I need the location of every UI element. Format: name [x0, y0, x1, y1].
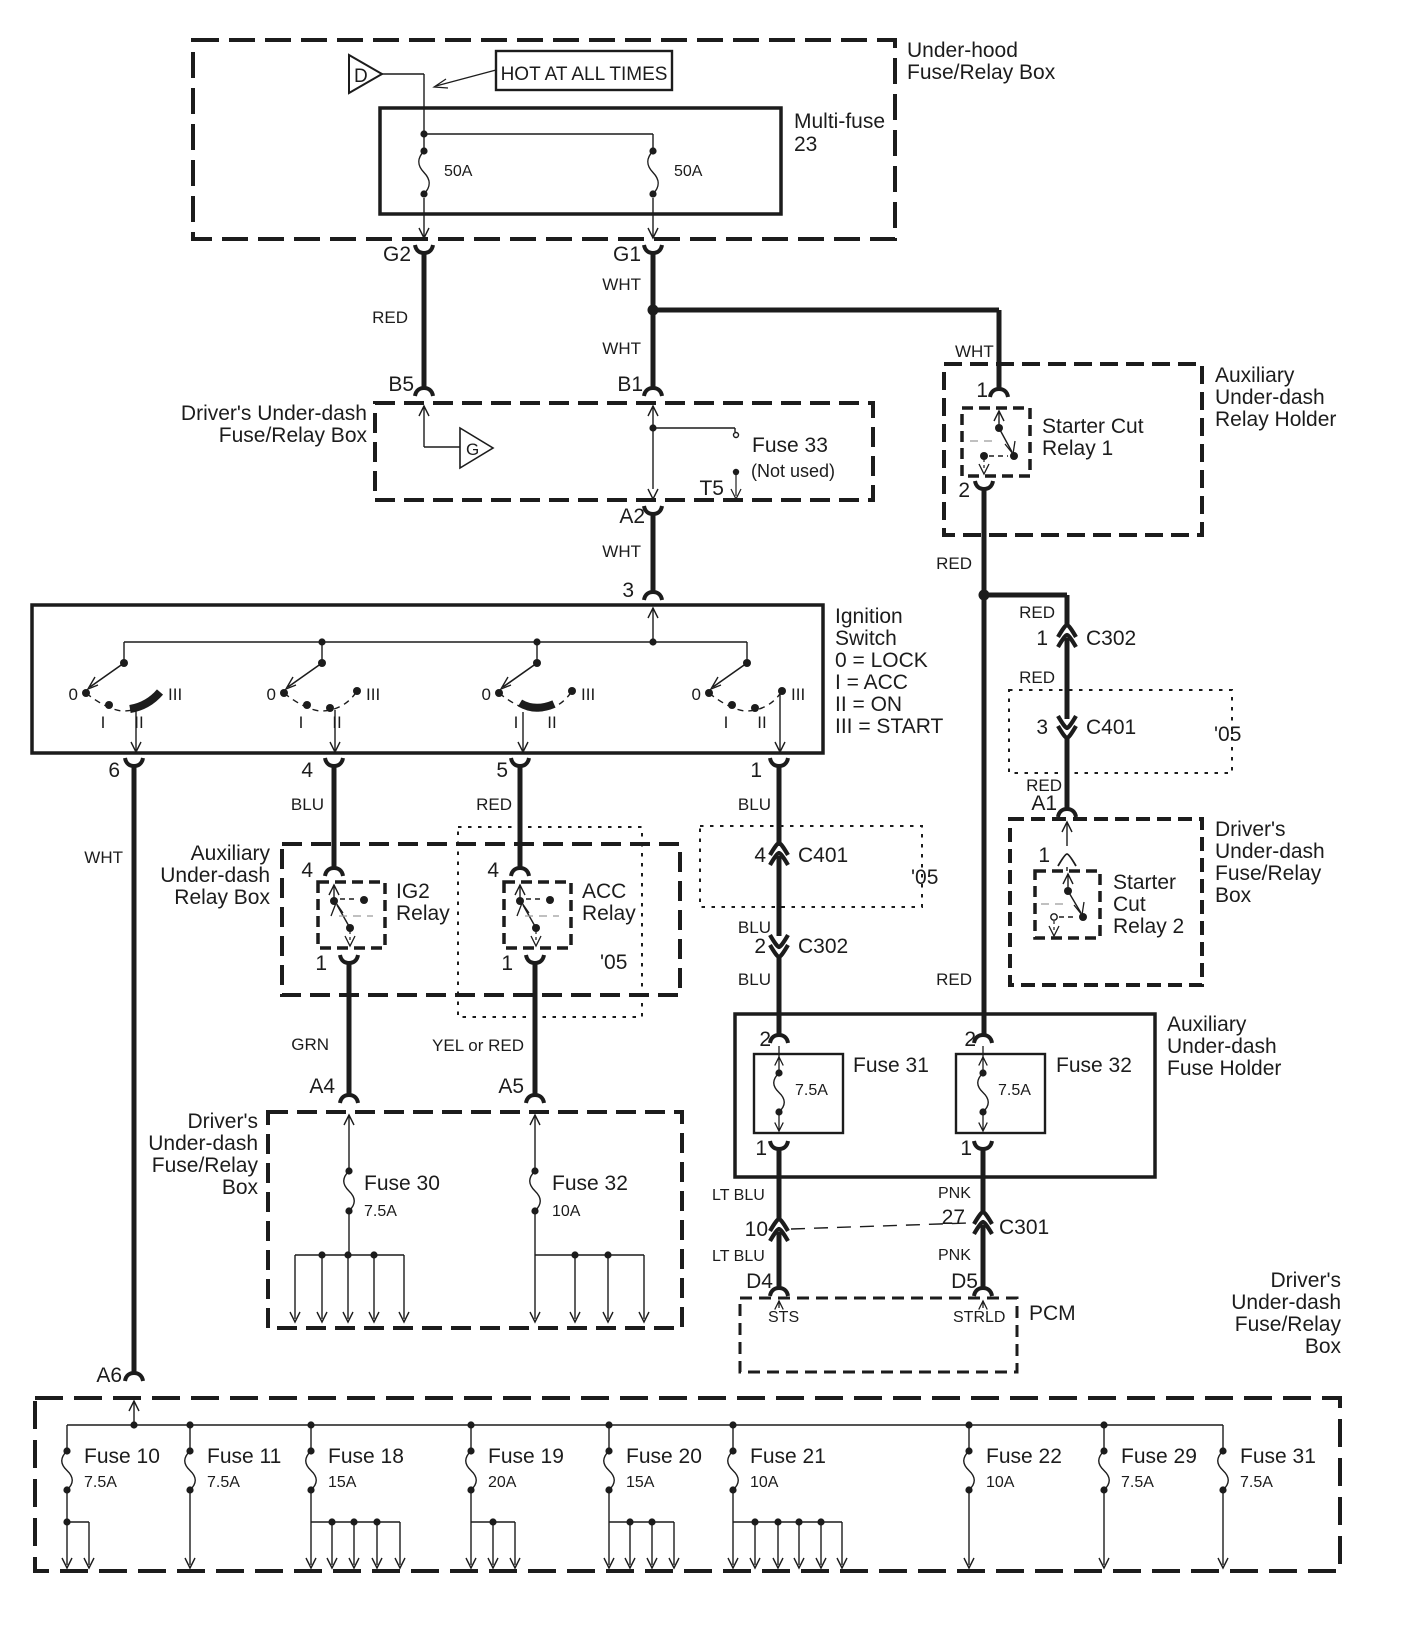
connector C401 pin 4 — [754, 843, 848, 867]
svg-text:1: 1 — [501, 952, 513, 975]
ground fan of Fuse 20 — [604, 1493, 679, 1568]
svg-text:7.5A: 7.5A — [1121, 1474, 1154, 1491]
svg-text:II: II — [547, 713, 556, 732]
box Auxiliary Under-dash Relay Box — [282, 844, 680, 995]
svg-text:Relay Box: Relay Box — [174, 886, 270, 909]
box Ignition Switch — [32, 605, 823, 753]
wire RED G2 to B5 — [372, 252, 424, 388]
wire LT BLU C301 to D4 — [712, 1232, 779, 1290]
svg-text:1: 1 — [750, 759, 762, 782]
ground fan of Fuse 31 — [1218, 1493, 1228, 1568]
svg-text:Fuse 30: Fuse 30 — [364, 1172, 440, 1195]
wire PNK fuse32 to C301 — [938, 1148, 983, 1214]
ground fan of Fuse 29 — [1099, 1493, 1109, 1568]
connector pin 5 — [496, 758, 529, 782]
wire RED C302 to C401 — [1019, 638, 1067, 719]
svg-text:Fuse 32: Fuse 32 — [552, 1172, 628, 1195]
svg-text:Relay 1: Relay 1 — [1042, 437, 1113, 460]
svg-text:1: 1 — [960, 1137, 972, 1160]
relay Starter Cut Relay 1 — [962, 408, 1030, 476]
svg-text:1: 1 — [1036, 627, 1048, 650]
svg-text:7.5A: 7.5A — [795, 1082, 828, 1099]
label Starter Cut Relay 1 — [1042, 415, 1144, 460]
wire BLU C401 to C302 — [738, 856, 779, 937]
svg-text:7.5A: 7.5A — [207, 1474, 240, 1491]
label Auxiliary Under-dash Relay Box — [160, 842, 270, 909]
fuse Fuse 19 20A — [466, 1421, 564, 1493]
connector D4 — [746, 1270, 788, 1296]
svg-text:Fuse 11: Fuse 11 — [207, 1445, 281, 1468]
svg-text:2: 2 — [754, 935, 766, 958]
wire A1 entry to relay 2 — [1038, 822, 1076, 871]
svg-text:C302: C302 — [1086, 627, 1136, 650]
svg-text:27: 27 — [942, 1206, 965, 1229]
label Auxiliary Under-dash Relay Holder — [1215, 364, 1336, 431]
label IG2 Relay — [396, 880, 450, 925]
wire BLU C302 to fuse holder — [738, 955, 779, 1037]
junction node on RED wire — [979, 590, 990, 601]
svg-text:Relay: Relay — [396, 902, 450, 925]
label PCM — [1029, 1302, 1076, 1325]
svg-text:II: II — [332, 713, 341, 732]
connector pin 1 — [750, 758, 788, 782]
svg-text:LT BLU: LT BLU — [712, 1187, 765, 1204]
svg-text:LT BLU: LT BLU — [712, 1248, 765, 1265]
wire WHT G1 to B1 — [602, 252, 653, 388]
svg-text:A1: A1 — [1031, 792, 1057, 815]
svg-text:Fuse 21: Fuse 21 — [750, 1445, 826, 1468]
svg-text:B1: B1 — [617, 373, 643, 396]
svg-text:15A: 15A — [328, 1474, 357, 1491]
svg-text:Box: Box — [1305, 1335, 1342, 1358]
svg-text:WHT: WHT — [955, 342, 994, 361]
svg-text:6: 6 — [108, 759, 120, 782]
connector pin 6 — [108, 758, 143, 782]
svg-text:2: 2 — [958, 479, 970, 502]
svg-text:RED: RED — [936, 970, 972, 989]
connector A2 — [619, 505, 662, 528]
svg-text:PCM: PCM — [1029, 1302, 1076, 1325]
label ACC Relay — [582, 880, 636, 925]
box '05 dotted region ACC relay — [458, 827, 642, 1017]
svg-text:7.5A: 7.5A — [364, 1203, 397, 1220]
ground fan of Fuse 19 — [466, 1493, 520, 1568]
label Auxiliary Under-dash Fuse Holder — [1167, 1013, 1281, 1080]
svg-text:Under-dash: Under-dash — [1215, 386, 1325, 409]
svg-text:A5: A5 — [498, 1075, 524, 1098]
connector pin 1 of ACC Relay — [501, 952, 544, 975]
connector pin 4 of ACC Relay — [487, 859, 529, 882]
svg-text:'05: '05 — [1214, 723, 1241, 746]
connector G1 — [613, 243, 662, 266]
svg-text:5: 5 — [496, 759, 508, 782]
connector pin 1 of IG2 Relay — [315, 952, 358, 975]
connector A5 — [498, 1075, 544, 1103]
svg-text:STS: STS — [768, 1309, 799, 1326]
connector C302 pin 1 — [1036, 625, 1136, 650]
connector C301 pin 10 — [745, 1218, 788, 1241]
connector pin 3 ignition switch — [622, 579, 662, 602]
svg-text:50A: 50A — [444, 163, 473, 180]
fuse Fuse 32 7.5A — [956, 1046, 1045, 1133]
label Fuse 32 — [1056, 1054, 1132, 1077]
svg-text:C302: C302 — [798, 935, 848, 958]
svg-text:Fuse/Relay Box: Fuse/Relay Box — [907, 61, 1056, 84]
svg-text:RED: RED — [936, 554, 972, 573]
box Driver's Under-dash Fuse/Relay Box bottom — [35, 1398, 1340, 1571]
fuse Fuse 10 7.5A — [62, 1425, 160, 1494]
svg-text:III: III — [581, 685, 595, 704]
svg-text:0: 0 — [267, 685, 276, 704]
label Multi-fuse 23 — [794, 110, 885, 156]
svg-text:D5: D5 — [951, 1270, 978, 1293]
box '05 dotted region C401 right — [1009, 690, 1241, 773]
svg-text:II = ON: II = ON — [835, 693, 902, 716]
wire RED pin5 to ACC relay — [476, 765, 520, 869]
svg-text:WHT: WHT — [84, 848, 123, 867]
svg-text:T5: T5 — [699, 477, 724, 500]
svg-text:'05: '05 — [600, 951, 627, 974]
connector D (power feed triangle) — [349, 55, 382, 93]
svg-text:Under-dash: Under-dash — [1215, 840, 1325, 863]
svg-text:HOT AT ALL TIMES: HOT AT ALL TIMES — [501, 64, 668, 85]
svg-text:Starter: Starter — [1113, 871, 1176, 894]
svg-text:RED: RED — [1019, 668, 1055, 687]
fuse Fuse 31 7.5A — [1218, 1425, 1316, 1494]
svg-text:Auxiliary: Auxiliary — [1215, 364, 1295, 387]
box '05 dotted region C401 mid — [700, 826, 938, 907]
wire B1 entry through box to A2 — [648, 406, 658, 499]
svg-text:Switch: Switch — [835, 627, 897, 650]
svg-text:4: 4 — [754, 844, 766, 867]
svg-text:Fuse/Relay Box: Fuse/Relay Box — [219, 424, 368, 447]
svg-text:Driver's Under-dash: Driver's Under-dash — [181, 402, 367, 425]
fuse Fuse 21 10A — [728, 1421, 826, 1493]
svg-text:Relay Holder: Relay Holder — [1215, 408, 1336, 431]
svg-text:ACC: ACC — [582, 880, 626, 903]
svg-text:10A: 10A — [986, 1474, 1015, 1491]
svg-text:A6: A6 — [96, 1364, 122, 1387]
wire WHT pin6 to A6 — [84, 765, 134, 1374]
svg-text:Fuse 19: Fuse 19 — [488, 1445, 564, 1468]
wire RED C401 to A1 — [1026, 736, 1067, 811]
svg-text:Fuse Holder: Fuse Holder — [1167, 1057, 1281, 1080]
wire 50A right to G1 — [648, 198, 658, 238]
fuse Fuse 31 7.5A — [754, 1046, 843, 1133]
connector pin 1 of Starter Cut Relay 1 — [976, 379, 1008, 402]
svg-text:7.5A: 7.5A — [84, 1474, 117, 1491]
svg-text:III = START: III = START — [835, 715, 944, 738]
svg-text:Fuse 29: Fuse 29 — [1121, 1445, 1197, 1468]
connector pin 1 of Fuse 31 — [755, 1137, 788, 1160]
node branch to Fuse 33 — [649, 424, 738, 437]
svg-text:10A: 10A — [750, 1474, 779, 1491]
relay IG2 Relay — [318, 882, 385, 948]
svg-text:WHT: WHT — [602, 542, 641, 561]
svg-text:20A: 20A — [488, 1474, 517, 1491]
ground fan of Fuse 21 — [728, 1493, 847, 1568]
svg-text:Under-hood: Under-hood — [907, 39, 1018, 62]
svg-text:G2: G2 — [383, 243, 411, 266]
connector A1 — [1031, 792, 1076, 817]
ground fan of Fuse 11 — [185, 1493, 195, 1568]
connector C302 pin 2 — [754, 935, 848, 958]
svg-text:4: 4 — [301, 859, 313, 882]
svg-text:PNK: PNK — [938, 1247, 971, 1264]
svg-text:Under-dash: Under-dash — [148, 1132, 258, 1155]
svg-text:IG2: IG2 — [396, 880, 430, 903]
svg-text:C401: C401 — [798, 844, 848, 867]
svg-text:Under-dash: Under-dash — [1231, 1291, 1341, 1314]
box Multi-fuse 23 — [380, 108, 781, 214]
svg-text:23: 23 — [794, 133, 817, 156]
svg-text:RED: RED — [476, 795, 512, 814]
svg-text:BLU: BLU — [738, 795, 771, 814]
label Driver's Under-dash Fuse/Relay Box — [181, 402, 368, 447]
svg-text:Box: Box — [1215, 884, 1252, 907]
svg-text:Fuse/Relay: Fuse/Relay — [152, 1154, 259, 1177]
svg-text:I: I — [299, 713, 304, 732]
svg-text:10: 10 — [745, 1218, 768, 1241]
wire Fuse 32 to ground fan — [534, 1214, 536, 1255]
svg-text:Under-dash: Under-dash — [160, 864, 270, 887]
label Driver's Under-dash Fuse/Relay Box lower — [148, 1110, 258, 1199]
wire WHT A2 to ignition switch pin 3 — [602, 514, 653, 592]
arrow from HOT tag to wire — [434, 70, 496, 88]
svg-text:BLU: BLU — [738, 970, 771, 989]
svg-text:0: 0 — [692, 685, 701, 704]
box PCM — [740, 1298, 1017, 1372]
svg-text:GRN: GRN — [291, 1035, 329, 1054]
connector B5 — [388, 373, 433, 396]
svg-text:1: 1 — [1038, 844, 1050, 867]
box Driver's Under-dash Fuse/Relay Box lower — [268, 1112, 682, 1328]
wire BLU pin1 to C401 — [738, 765, 779, 846]
connector pin 4 of IG2 Relay — [301, 859, 343, 882]
svg-text:RED: RED — [1019, 603, 1055, 622]
svg-text:1: 1 — [755, 1137, 767, 1160]
connector A6 — [96, 1364, 143, 1387]
svg-text:C301: C301 — [999, 1216, 1049, 1239]
svg-text:III: III — [791, 685, 805, 704]
svg-text:WHT: WHT — [602, 339, 641, 358]
wire A5 entry to Fuse 32 — [530, 1115, 540, 1168]
terminal T5 — [699, 469, 741, 500]
box Driver's Under-dash Fuse/Relay Box — [375, 403, 873, 500]
ground fan of Fuse 32 — [530, 1251, 649, 1322]
fuse Fuse 30 7.5A — [344, 1167, 440, 1220]
fuse Fuse 33 (not used) — [751, 434, 835, 481]
connector pin 2 of Starter Cut Relay 1 — [958, 479, 993, 502]
switch wafer 2 (pin 4) of ignition switch — [267, 642, 381, 752]
switch wafer 1 (pin 6) of ignition switch — [69, 642, 183, 752]
svg-text:Fuse/Relay: Fuse/Relay — [1215, 862, 1322, 885]
wire internal bus of ignition switch — [124, 638, 747, 645]
svg-text:1: 1 — [976, 379, 988, 402]
connector G2 — [383, 243, 433, 266]
svg-text:Relay 2: Relay 2 — [1113, 915, 1184, 938]
svg-text:15A: 15A — [626, 1474, 655, 1491]
svg-text:Fuse/Relay: Fuse/Relay — [1235, 1313, 1342, 1336]
connector G (ground triangle) — [460, 428, 493, 468]
svg-text:III: III — [366, 685, 380, 704]
svg-text:Driver's: Driver's — [187, 1110, 258, 1133]
svg-text:Under-dash: Under-dash — [1167, 1035, 1277, 1058]
svg-text:C401: C401 — [1086, 716, 1136, 739]
connector pin 1 of Fuse 32 — [960, 1137, 992, 1160]
wire WHT branch to Starter Cut Relay 1 — [653, 310, 999, 391]
svg-text:I = ACC: I = ACC — [835, 671, 908, 694]
svg-text:Fuse 32: Fuse 32 — [1056, 1054, 1132, 1077]
svg-text:Auxiliary: Auxiliary — [191, 842, 271, 865]
svg-text:WHT: WHT — [602, 275, 641, 294]
wire GRN IG2 pin1 to A4 — [291, 963, 349, 1097]
svg-text:0 = LOCK: 0 = LOCK — [835, 649, 928, 672]
svg-text:PNK: PNK — [938, 1185, 971, 1202]
svg-text:7.5A: 7.5A — [1240, 1474, 1273, 1491]
svg-text:Driver's: Driver's — [1270, 1269, 1341, 1292]
wire bus of bottom fuse box — [67, 1424, 1223, 1426]
wire RED relay1 pin2 down to fuse holder — [936, 488, 984, 1037]
svg-text:50A: 50A — [674, 163, 703, 180]
wire A6 entry to bus — [129, 1401, 139, 1429]
wire LT BLU fuse31 to C301 — [712, 1148, 779, 1221]
svg-text:1: 1 — [315, 952, 327, 975]
svg-text:Box: Box — [222, 1176, 259, 1199]
svg-text:Cut: Cut — [1113, 893, 1146, 916]
terminal STRLD — [953, 1301, 1005, 1326]
wire internal feed bus of multi-fuse — [420, 130, 653, 148]
box Auxiliary Under-dash Fuse Holder — [735, 1014, 1155, 1177]
relay Starter Cut Relay 2 — [1035, 871, 1100, 938]
svg-text:III: III — [168, 685, 182, 704]
connector C301 pin 27 — [942, 1206, 1050, 1239]
connector C401 pin 3 — [1036, 716, 1136, 739]
svg-text:Fuse 22: Fuse 22 — [986, 1445, 1062, 1468]
fuse Fuse 18 15A — [306, 1421, 404, 1493]
fuse Fuse 20 15A — [604, 1421, 702, 1493]
svg-text:I: I — [724, 713, 729, 732]
svg-text:4: 4 — [301, 759, 313, 782]
connector pin 4 — [301, 758, 343, 782]
fuse 50A right — [648, 147, 703, 197]
svg-text:7.5A: 7.5A — [998, 1082, 1031, 1099]
ground fan of Fuse 18 — [306, 1493, 405, 1568]
connector D5 — [951, 1270, 992, 1296]
wire B5 entry to ground triangle G — [419, 406, 460, 447]
svg-text:A4: A4 — [309, 1075, 335, 1098]
fuse Fuse 32 10A — [530, 1167, 628, 1220]
wire PNK C301 to D5 — [938, 1225, 983, 1290]
wire 50A left to G2 — [419, 198, 429, 238]
svg-text:Driver's: Driver's — [1215, 818, 1286, 841]
svg-text:Fuse 33: Fuse 33 — [752, 434, 828, 457]
label Driver's Under-dash Fuse/Relay Box bottom right — [1231, 1269, 1341, 1358]
switch wafer 3 (pin 5) of ignition switch — [482, 642, 596, 752]
svg-text:4: 4 — [487, 859, 499, 882]
junction node on WHT wire — [648, 305, 659, 316]
svg-text:Fuse 18: Fuse 18 — [328, 1445, 404, 1468]
fuse Fuse 11 7.5A — [185, 1421, 282, 1493]
svg-text:Fuse 31: Fuse 31 — [1240, 1445, 1316, 1468]
fuse Fuse 22 10A — [964, 1421, 1062, 1493]
svg-text:D: D — [354, 66, 368, 87]
wire dashed link of C301 — [791, 1223, 969, 1229]
connector pin 2 of Fuse 31 — [759, 1028, 788, 1051]
switch wafer 4 (pin 1) of ignition switch — [692, 642, 806, 752]
wire RED branch to C302 — [984, 595, 1067, 627]
svg-text:Fuse 10: Fuse 10 — [84, 1445, 160, 1468]
svg-text:I: I — [514, 713, 519, 732]
svg-text:A2: A2 — [619, 505, 645, 528]
label Fuse 31 — [853, 1054, 929, 1077]
svg-text:G: G — [466, 440, 479, 459]
connector pin 2 of Fuse 32 — [964, 1028, 992, 1051]
svg-text:10A: 10A — [552, 1203, 581, 1220]
svg-text:BLU: BLU — [291, 795, 324, 814]
label Under-hood Fuse/Relay Box — [907, 39, 1056, 84]
wire YEL or RED ACC pin1 to A5 — [432, 963, 535, 1097]
connector B1 — [617, 373, 662, 396]
ground fan of Fuse 22 — [964, 1493, 974, 1568]
svg-text:3: 3 — [1036, 716, 1048, 739]
box Under-hood Fuse/Relay Box — [193, 40, 895, 239]
box Driver's Under-dash Fuse/Relay Box right — [1010, 819, 1202, 985]
svg-text:Auxiliary: Auxiliary — [1167, 1013, 1247, 1036]
svg-text:B5: B5 — [388, 373, 414, 396]
wire from connector D to fuse feed — [382, 74, 424, 134]
label Starter Cut Relay 2 — [1113, 871, 1184, 938]
svg-text:II: II — [757, 713, 766, 732]
svg-text:I: I — [101, 713, 106, 732]
wire pin3 entry to internal bus — [648, 608, 658, 642]
svg-text:'05: '05 — [911, 866, 938, 889]
svg-text:G1: G1 — [613, 243, 641, 266]
HOT AT ALL TIMES tag — [496, 51, 672, 90]
svg-text:Starter Cut: Starter Cut — [1042, 415, 1144, 438]
svg-text:(Not used): (Not used) — [751, 461, 835, 481]
svg-text:RED: RED — [372, 308, 408, 327]
svg-text:Relay: Relay — [582, 902, 636, 925]
svg-text:YEL or RED: YEL or RED — [432, 1036, 524, 1055]
wire Fuse 30 to ground fan — [348, 1214, 350, 1255]
svg-text:0: 0 — [482, 685, 491, 704]
box Auxiliary Under-dash Relay Holder — [944, 364, 1202, 535]
svg-text:3: 3 — [622, 579, 634, 602]
svg-text:0: 0 — [69, 685, 78, 704]
svg-text:D4: D4 — [746, 1270, 773, 1293]
svg-text:Multi-fuse: Multi-fuse — [794, 110, 885, 133]
ground fan of Fuse 30 — [290, 1251, 409, 1322]
terminal STS — [768, 1301, 799, 1326]
fuse Fuse 29 7.5A — [1099, 1421, 1197, 1493]
svg-text:Fuse 31: Fuse 31 — [853, 1054, 929, 1077]
wire A4 entry to Fuse 30 — [344, 1115, 354, 1168]
svg-text:STRLD: STRLD — [953, 1309, 1005, 1326]
relay ACC Relay — [504, 882, 571, 948]
ground fan of Fuse 10 — [62, 1493, 94, 1568]
svg-text:Ignition: Ignition — [835, 605, 903, 628]
label Ignition Switch legend — [835, 605, 944, 738]
label Driver's Under-dash Fuse/Relay Box right — [1215, 818, 1325, 907]
connector A4 — [309, 1075, 358, 1103]
svg-text:Fuse 20: Fuse 20 — [626, 1445, 702, 1468]
fuse 50A left — [419, 147, 473, 197]
wire BLU pin4 to IG2 relay — [291, 765, 334, 869]
